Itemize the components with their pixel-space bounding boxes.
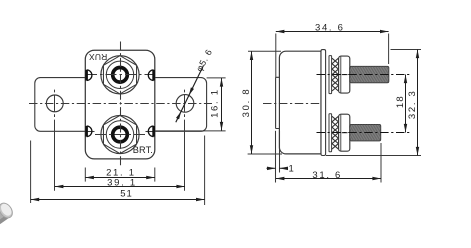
svg-text:1: 1 (289, 163, 294, 174)
svg-text:30. 8: 30. 8 (241, 88, 252, 118)
svg-text:51: 51 (120, 189, 133, 200)
svg-text:18: 18 (395, 95, 406, 108)
svg-text:RUX: RUX (89, 52, 108, 62)
svg-text:34. 6: 34. 6 (315, 23, 345, 34)
svg-text:39. 1: 39. 1 (107, 178, 137, 189)
svg-text:31. 6: 31. 6 (312, 170, 342, 181)
svg-text:φ5. 6: φ5. 6 (194, 47, 214, 73)
svg-text:BRT.: BRT. (133, 145, 153, 155)
svg-text:16. 1: 16. 1 (209, 88, 220, 118)
svg-text:32. 3: 32. 3 (407, 89, 418, 119)
